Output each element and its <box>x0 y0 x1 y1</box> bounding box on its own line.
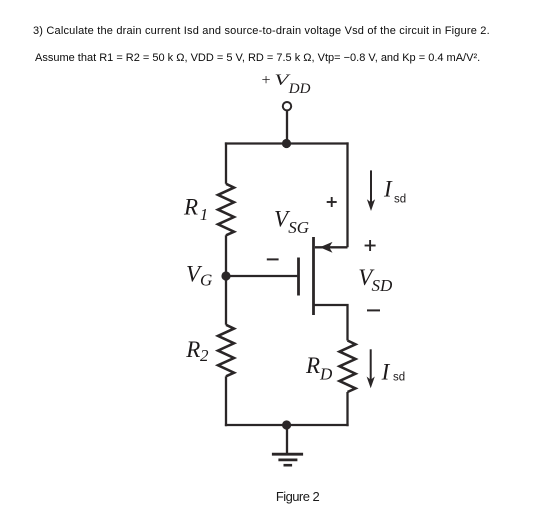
wire ground stub <box>286 425 288 454</box>
current arrow Isd bottom <box>367 349 375 388</box>
svg-text:sd: sd <box>393 372 405 384</box>
svg-text:sd: sd <box>394 193 406 205</box>
resistor R1 <box>218 184 234 236</box>
svg-text:R: R <box>183 194 198 219</box>
junction dot top rail <box>282 139 291 148</box>
svg-text:DD: DD <box>288 81 311 97</box>
minus sign VSD <box>367 309 380 311</box>
minus sign VSG <box>267 258 279 260</box>
problem statement line 1 <box>33 25 490 37</box>
svg-text:2: 2 <box>200 346 209 365</box>
junction dot ground node <box>282 420 291 429</box>
wire left branch middle <box>225 235 227 324</box>
wire VDD stub <box>286 110 288 143</box>
svg-text:SG: SG <box>288 218 309 237</box>
wire transistor source lead <box>315 246 348 248</box>
ground symbol bars <box>272 454 303 465</box>
wire bottom rail <box>225 424 349 426</box>
wire left branch lower <box>225 376 227 426</box>
wire top rail <box>225 142 349 144</box>
wire gate lead <box>226 275 297 277</box>
wire drain branch lower <box>346 392 348 426</box>
terminal +VDD circle <box>283 102 291 110</box>
svg-text:R: R <box>185 337 200 362</box>
svg-text:I: I <box>381 359 391 384</box>
junction dot VG node <box>221 271 230 280</box>
svg-text:SD: SD <box>372 276 394 295</box>
svg-text:R: R <box>305 353 320 378</box>
resistor RD <box>340 341 356 393</box>
caption Figure 2 <box>0 489 560 504</box>
transistor Q1 gate bar <box>297 258 300 296</box>
plus sign VSD <box>365 240 376 251</box>
plus sign VSG <box>327 197 337 207</box>
svg-text:+: + <box>261 72 272 89</box>
problem statement line 2 <box>35 52 480 64</box>
transistor Q1 source arrowhead <box>320 242 333 253</box>
resistor R2 <box>218 325 234 377</box>
svg-text:D: D <box>319 364 333 383</box>
wire right branch upper <box>346 142 348 247</box>
wire left branch upper <box>225 142 227 183</box>
svg-text:G: G <box>200 271 212 290</box>
current arrow Isd top <box>367 170 375 211</box>
svg-text:I: I <box>383 176 393 201</box>
svg-text:1: 1 <box>200 205 209 224</box>
transistor Q1 channel bar <box>312 237 315 315</box>
wire transistor drain lead <box>314 305 348 341</box>
